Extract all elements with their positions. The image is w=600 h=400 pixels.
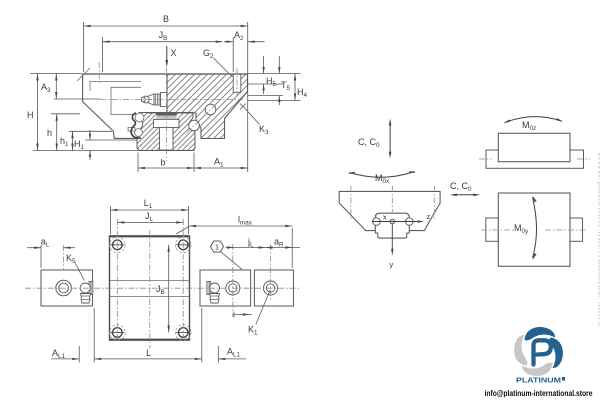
M0z view top right — [479, 117, 590, 169]
ext top surface left — [30, 73, 82, 75]
svg-text:A2: A2 — [234, 30, 244, 42]
dim L — [94, 358, 202, 360]
petal bottom silver — [522, 363, 553, 376]
channel step — [128, 128, 135, 132]
svg-text:www.platinum-international.sto: www.platinum-international.store — [596, 150, 600, 328]
M0z arc — [505, 117, 562, 123]
dim B — [84, 25, 248, 27]
ext AL1 — [78, 346, 80, 363]
trapezoid carriage — [339, 191, 440, 230]
white center — [527, 340, 551, 364]
svg-text:JB: JB — [159, 30, 168, 42]
rail hole centerline mid — [232, 244, 234, 317]
lube port centerline top — [98, 62, 100, 84]
lube channel contour 2 — [111, 87, 141, 114]
dim lmax — [189, 225, 292, 227]
ball right — [406, 218, 414, 226]
svg-text:z: z — [427, 212, 431, 221]
svg-text:X: X — [171, 48, 177, 58]
end cap outline — [83, 74, 137, 138]
ball left — [373, 218, 381, 226]
dim A2 — [224, 41, 233, 43]
vertical centerline rail — [166, 68, 168, 161]
rail bore shaft — [160, 128, 174, 151]
AL1 left dim — [51, 358, 79, 360]
svg-text:aR: aR — [274, 236, 284, 248]
end cap bottom edge over rail — [146, 112, 167, 114]
svg-text:H1: H1 — [74, 139, 85, 151]
svg-text:M0z: M0z — [522, 120, 536, 132]
z axis — [372, 221, 420, 223]
svg-text:PLATINUM: PLATINUM — [516, 376, 561, 385]
y axis — [391, 224, 393, 251]
dim H4 — [294, 74, 296, 101]
left rail piece — [41, 270, 93, 306]
svg-text:1: 1 — [215, 243, 219, 252]
seal lip — [131, 113, 141, 138]
svg-text:B: B — [163, 14, 169, 24]
ext aL left — [40, 245, 42, 268]
center vertical centerline — [391, 186, 393, 212]
left rail hole — [56, 280, 72, 296]
cover strip dark — [157, 113, 177, 116]
svg-text:C, C0: C, C0 — [450, 181, 472, 193]
dim L1 — [110, 209, 188, 211]
svg-text:H5: H5 — [266, 76, 277, 88]
lube channel contour 1 — [90, 81, 141, 91]
ball contact centerline — [187, 104, 217, 133]
balloon 1 hexagon — [211, 241, 224, 252]
ext line JB left — [102, 37, 104, 72]
rail bore counterbore — [154, 120, 180, 128]
carriage body — [110, 236, 190, 340]
mid rail hole — [226, 281, 240, 295]
svg-text:info@platinum-international.st: info@platinum-international.store — [485, 389, 593, 398]
svg-text:C, C0: C, C0 — [358, 137, 380, 149]
dimensions of cross-section — [27, 14, 308, 172]
K5 nipple left — [80, 282, 93, 304]
X axis arrow — [166, 46, 168, 62]
svg-text:M0x: M0x — [375, 173, 390, 185]
K5 leader — [75, 263, 84, 281]
balloon leader — [221, 252, 242, 270]
left rail tab — [486, 218, 499, 241]
svg-text:A1: A1 — [214, 157, 224, 169]
dim A1 — [194, 167, 248, 169]
petal top blue — [525, 327, 556, 340]
ext L right / AL1 right — [201, 308, 203, 363]
K1 nipple right — [207, 282, 220, 304]
right refs H5 T5 H4 — [248, 73, 301, 75]
svg-text:h: h — [47, 128, 52, 138]
dim A3 — [55, 74, 57, 100]
dim JL — [117, 221, 183, 223]
dim b — [138, 167, 194, 169]
dim T5 — [278, 56, 280, 74]
rail strip — [486, 150, 584, 168]
petal right blue — [550, 338, 563, 369]
ext lmax right — [291, 228, 293, 268]
grease nipple flange — [161, 93, 168, 107]
rail edges inside carriage — [110, 280, 190, 282]
carriage steel body hatched — [167, 74, 248, 139]
ext A3 bottom — [54, 98, 100, 100]
carriage top edge thick — [110, 235, 190, 237]
carriage bottom edge thick — [110, 339, 190, 341]
ball lower right — [189, 120, 200, 131]
rail hatched — [137, 113, 195, 151]
x axis symbol — [390, 219, 395, 224]
dim h1 — [72, 131, 74, 150]
track centerline left — [350, 186, 352, 219]
ext h — [51, 113, 80, 115]
screw hole BR — [175, 325, 191, 341]
svg-text:G2: G2 — [203, 48, 214, 60]
G2 leader — [214, 58, 233, 77]
screw hole BL — [110, 325, 126, 341]
centerline — [481, 229, 514, 231]
ext h1 — [69, 130, 112, 132]
dimensions of top view — [27, 198, 300, 363]
P glyph — [534, 340, 551, 364]
registered box — [562, 377, 565, 381]
nipple ribs — [155, 94, 157, 105]
K1 leader — [256, 291, 270, 325]
rail end centerlines — [479, 158, 492, 160]
nipple tip — [142, 97, 146, 101]
horizontal lube centerline — [100, 99, 243, 101]
mid rail piece — [200, 270, 251, 306]
right rail hole — [264, 281, 278, 295]
dim jL — [226, 247, 235, 249]
right rail tab — [570, 218, 583, 241]
cover strip light — [157, 116, 177, 120]
svg-text:H: H — [27, 110, 34, 120]
G2 hole centerline — [236, 68, 238, 96]
G2 thread slot — [233, 74, 241, 92]
svg-text:jL: jL — [247, 236, 254, 248]
K3 cross mark — [240, 104, 246, 110]
center block — [375, 213, 409, 238]
svg-text:b: b — [160, 158, 165, 168]
ext L1 right — [187, 206, 189, 234]
ext b right — [193, 153, 195, 173]
ext H1 — [85, 139, 137, 141]
svg-text:h1: h1 — [60, 136, 69, 148]
ext line right long — [247, 22, 249, 172]
ext line A2 — [232, 37, 234, 72]
right rail piece — [254, 270, 293, 306]
horizontal centerline — [25, 287, 300, 289]
svg-text:L: L — [146, 348, 151, 358]
svg-text:K1: K1 — [248, 325, 258, 337]
dim h — [56, 114, 58, 151]
ext L1 left — [109, 206, 111, 234]
rail hole centerline right — [270, 244, 272, 300]
hole column centerline left — [116, 219, 118, 338]
svg-text:JL: JL — [145, 211, 154, 223]
svg-text:y: y — [390, 260, 394, 269]
jL lower arrow — [233, 312, 235, 318]
rail hole centerline leftpiece — [63, 245, 65, 270]
svg-text:x: x — [383, 213, 387, 222]
AL1 right dim — [218, 358, 246, 360]
screw hole TR — [175, 237, 191, 253]
nipple cone — [148, 94, 154, 105]
dim JB vertical — [168, 245, 170, 333]
svg-text:K3: K3 — [259, 124, 269, 136]
ball upper right — [205, 104, 216, 115]
petal left silver — [514, 335, 527, 366]
left return channel ball top — [135, 113, 144, 122]
M0y arc — [533, 198, 537, 259]
top surface — [83, 73, 248, 75]
hole column centerline right — [182, 219, 184, 338]
dim aL — [27, 247, 41, 249]
grease nipple body — [154, 94, 161, 105]
svg-text:A3: A3 — [41, 82, 51, 94]
dim H5 — [263, 56, 265, 74]
M0y view bottom right — [481, 193, 587, 266]
svg-text:K5: K5 — [66, 253, 76, 265]
svg-text:AL1: AL1 — [52, 348, 66, 360]
nipple tip ball — [142, 96, 149, 103]
ext line B left — [83, 22, 85, 72]
K3 leader — [246, 109, 260, 125]
carriage rect — [498, 193, 570, 266]
surface mark — [77, 68, 90, 81]
screw hole TL — [110, 237, 126, 253]
svg-text:AL1: AL1 — [227, 347, 241, 359]
dim JB — [103, 41, 223, 43]
carriage rect — [498, 133, 570, 161]
ext b left — [137, 153, 139, 173]
svg-text:aL: aL — [41, 237, 50, 249]
left return channel ball bottom — [135, 129, 143, 137]
track centerline right — [433, 186, 435, 219]
base line — [33, 150, 195, 152]
M0x arc — [350, 172, 415, 178]
dim H — [37, 74, 39, 151]
svg-text:lmax: lmax — [238, 215, 253, 227]
vertical centerline carriage — [149, 230, 151, 348]
dim H1 — [89, 130, 91, 140]
svg-text:L1: L1 — [144, 198, 153, 210]
C C0 vertical arrow — [389, 123, 391, 154]
svg-text:T5: T5 — [281, 80, 291, 92]
dim aR — [266, 247, 301, 249]
svg-text:H4: H4 — [297, 87, 308, 99]
